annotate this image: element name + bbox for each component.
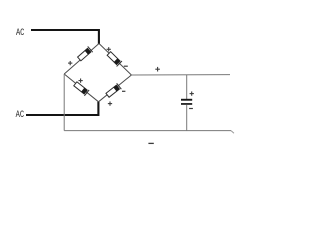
wire: capacitor C1 top lead — [186, 75, 188, 99]
diode D4 (bottom-right arm, cathode band toward + node) — [105, 83, 121, 98]
label AC (bottom input) — [16, 110, 25, 121]
label - (D4 cathode polarity) — [122, 90, 125, 92]
label - (D2 cathode polarity) — [124, 65, 128, 67]
wire: bridge edge top-left (node T to node L) — [64, 44, 99, 75]
label + (D4 anode polarity) — [108, 101, 112, 105]
wire: capacitor C1 bottom lead — [186, 105, 188, 131]
wire: node L down to DC minus rail — [63, 74, 65, 131]
diode D2 (top-right arm, cathode band toward + node) — [106, 51, 122, 67]
svg-text:AC: AC — [16, 28, 25, 39]
label + (D3 anode polarity) — [78, 78, 82, 82]
wire: DC plus rail (node R to right edge) — [131, 74, 230, 76]
label + (C1 positive plate) — [190, 91, 194, 95]
label + (D1 anode polarity) — [68, 61, 72, 65]
label - (DC minus rail) — [148, 142, 153, 144]
wire: bridge edge top-right (node T to node R) — [99, 44, 131, 76]
label - (C1 negative plate) — [189, 108, 193, 110]
wire: DC minus bottom rail — [64, 131, 234, 134]
label AC (top input) — [16, 28, 25, 39]
label + (DC plus rail) — [155, 67, 160, 72]
wire: top AC lead to bridge top node — [31, 30, 99, 44]
diode D1 (top-left arm, cathode band toward top node) — [77, 46, 93, 61]
wire: bottom AC lead to bridge bottom node — [26, 102, 98, 115]
capacitor C1 (polarized filter capacitor plates) — [181, 99, 192, 105]
wire: bridge edge bottom-left (node L to node B) — [64, 74, 98, 102]
diode D3 (bottom-left arm, cathode band toward bottom node) — [73, 81, 89, 96]
svg-text:AC: AC — [16, 110, 25, 121]
label + (D2 anode polarity) — [107, 47, 111, 51]
wire: bridge edge bottom-right (node B to node R) — [99, 75, 132, 102]
